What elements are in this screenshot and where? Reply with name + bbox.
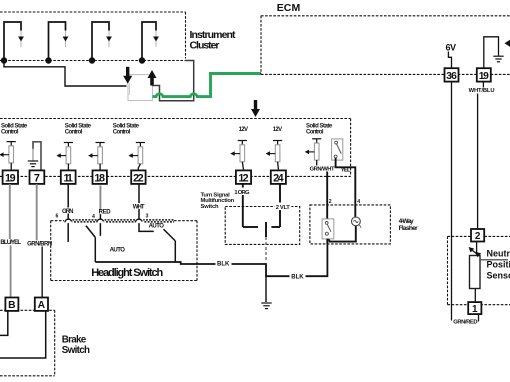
svg-text:Position: Position <box>487 260 510 270</box>
svg-text:36: 36 <box>446 71 457 82</box>
svg-text:22: 22 <box>133 172 144 184</box>
svg-text:WHT/BLU: WHT/BLU <box>469 88 495 94</box>
svg-text:12V: 12V <box>239 127 248 133</box>
svg-text:Control: Control <box>1 129 19 135</box>
svg-text:AUTO: AUTO <box>149 224 165 230</box>
svg-text:BLK: BLK <box>217 261 230 267</box>
svg-text:GRN/BRN: GRN/BRN <box>27 242 52 248</box>
svg-text:1 ORG: 1 ORG <box>234 190 250 196</box>
svg-text:Switch: Switch <box>62 345 90 356</box>
svg-text:2 VLT: 2 VLT <box>276 205 291 211</box>
svg-text:4: 4 <box>357 199 360 205</box>
svg-text:B: B <box>8 300 15 311</box>
svg-text:Neutral: Neutral <box>487 249 510 259</box>
svg-text:Cluster: Cluster <box>190 40 220 52</box>
svg-text:6: 6 <box>56 213 59 219</box>
svg-text:4: 4 <box>92 214 95 220</box>
svg-text:2: 2 <box>329 199 332 205</box>
svg-text:11: 11 <box>63 172 73 184</box>
svg-text:19: 19 <box>479 71 489 82</box>
svg-text:Control: Control <box>306 129 324 135</box>
svg-text:3: 3 <box>146 213 149 219</box>
svg-text:12: 12 <box>238 172 248 184</box>
svg-text:19: 19 <box>5 172 16 184</box>
svg-text:1: 1 <box>472 304 478 315</box>
svg-text:Brake: Brake <box>62 334 87 345</box>
svg-text:YEL: YEL <box>341 167 351 173</box>
svg-text:GRN/WHT: GRN/WHT <box>310 166 335 172</box>
svg-text:6V: 6V <box>446 43 457 53</box>
svg-text:ECM: ECM <box>277 2 301 14</box>
svg-text:A: A <box>38 300 46 311</box>
svg-text:2: 2 <box>475 231 481 242</box>
svg-text:BLU/YEL: BLU/YEL <box>0 240 21 246</box>
svg-text:Flasher: Flasher <box>399 225 419 232</box>
svg-text:18: 18 <box>94 172 105 184</box>
svg-text:Control: Control <box>113 129 131 135</box>
svg-text:24: 24 <box>273 172 284 184</box>
svg-text:7: 7 <box>34 172 40 184</box>
svg-text:BLK: BLK <box>291 275 304 281</box>
svg-text:Switch: Switch <box>201 204 220 210</box>
svg-text:Headlight Switch: Headlight Switch <box>91 267 163 279</box>
svg-text:12V: 12V <box>273 127 282 133</box>
svg-text:AUTO: AUTO <box>110 247 126 253</box>
svg-text:Sensor: Sensor <box>487 271 510 281</box>
svg-text:Control: Control <box>65 129 83 135</box>
svg-text:GRN/RED: GRN/RED <box>453 319 477 325</box>
